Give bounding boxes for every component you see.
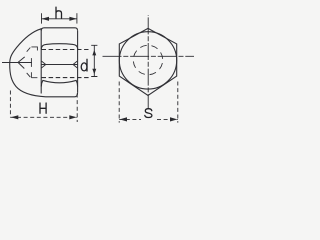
label H bbox=[40, 103, 46, 113]
thread end bottom bar bbox=[31, 72, 37, 78]
H arrow left bbox=[11, 115, 18, 119]
thread hidden line lower (dashed) bbox=[42, 77, 90, 79]
s dimension dashed line bbox=[119, 118, 178, 120]
s arrow right bbox=[170, 117, 177, 121]
bottom face boundary arc bbox=[43, 80, 77, 83]
thread end top bar bbox=[31, 47, 37, 51]
h dimension line bbox=[42, 18, 77, 20]
axis centerline left bbox=[2, 62, 32, 64]
h extension line right bbox=[76, 13, 78, 23]
s extension dashed right bbox=[177, 82, 179, 123]
s extension dashed left bbox=[118, 82, 120, 123]
thread hidden line upper (dashed) bbox=[42, 49, 89, 51]
nut body top edge with corner chamfer curves bbox=[41, 28, 77, 31]
DIMENSIONS left view bbox=[10, 13, 97, 122]
drill point open arrowhead bbox=[18, 57, 25, 69]
h arrow right bbox=[69, 17, 76, 21]
s arrow left bbox=[120, 117, 127, 121]
H dimension dashed line bbox=[10, 116, 77, 118]
d arrow down bbox=[92, 69, 96, 75]
RIGHT VIEW: hex end view bbox=[119, 28, 176, 95]
label h bbox=[56, 7, 62, 18]
horizontal centerline bbox=[103, 55, 195, 57]
middle face line bbox=[41, 64, 77, 66]
thread runout top diagonal bbox=[27, 48, 31, 52]
top face boundary arc with end curls bbox=[41, 44, 77, 49]
nut body left edge bbox=[40, 28, 42, 93]
H extension dashed left bbox=[9, 91, 11, 118]
dome arc bbox=[10, 29, 46, 97]
nut body right edge bbox=[77, 31, 79, 92]
H arrow right bbox=[69, 115, 76, 119]
label d bbox=[86, 59, 88, 71]
label s bbox=[145, 109, 152, 118]
h arrow left bbox=[42, 17, 49, 21]
thread dashed circle bbox=[131, 43, 166, 78]
vertical centerline bbox=[147, 15, 149, 109]
nut body bottom silhouette edge bbox=[46, 92, 78, 97]
dome circle bbox=[119, 32, 176, 89]
middle face chamfer chevron right bbox=[73, 61, 77, 68]
H extension dashed right bbox=[76, 94, 78, 123]
bottom face arc end curls bbox=[41, 80, 77, 86]
hexagon outline bbox=[119, 28, 176, 95]
middle face chamfer chevron left bbox=[41, 61, 45, 68]
drill hole bottom tick bbox=[30, 58, 32, 67]
h extension line left bbox=[41, 13, 43, 23]
d arrow up bbox=[92, 50, 96, 56]
thread runout bottom diagonal bbox=[27, 73, 31, 77]
d dimension vertical line with end bars bbox=[91, 45, 97, 76]
